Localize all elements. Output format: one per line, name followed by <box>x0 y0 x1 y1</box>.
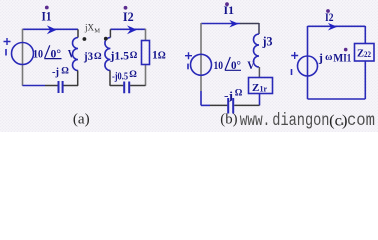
source value label 10/0 V (a) <box>33 45 75 60</box>
wire right (c) <box>364 26 366 99</box>
svg-text:j1.5: j1.5 <box>109 51 129 63</box>
wire left (b) <box>200 23 202 91</box>
current label I1 (a) <box>42 6 52 24</box>
svg-text:-j: -j <box>224 90 233 102</box>
svg-text:M: M <box>333 51 343 65</box>
wire right (a) secondary <box>145 29 147 86</box>
capacitor -j ohm (a) <box>59 81 63 93</box>
capacitor -j ohm (b) <box>228 98 233 114</box>
coupling dot L1 <box>83 37 87 41</box>
current arrow I2 (c) <box>328 23 337 31</box>
inductor value label j1.5 ohm (a) <box>109 51 137 63</box>
svg-text:I2: I2 <box>123 9 134 24</box>
source label jwMI1 (c) <box>318 48 352 65</box>
source value label 10/0 V (b) <box>214 57 255 72</box>
wire left (c) <box>307 26 309 99</box>
svg-text:(a): (a) <box>73 111 90 127</box>
svg-text:Ω: Ω <box>130 51 138 61</box>
wire bottom (a) primary <box>23 85 46 87</box>
inductor L1 j3 (a) <box>77 29 79 37</box>
svg-text:Ω: Ω <box>94 52 102 62</box>
inductor value label j3 ohm (a) <box>83 51 102 63</box>
svg-text:0°: 0° <box>51 47 62 61</box>
svg-text:I2: I2 <box>325 10 334 24</box>
wire bottom (b) <box>210 104 260 106</box>
inductor j3 (b) <box>258 23 260 34</box>
resistor value label 1 ohm (a) <box>152 50 166 62</box>
svg-text:Z: Z <box>252 82 259 94</box>
capacitor -j0.5 ohm (a) <box>124 82 129 94</box>
svg-text:1r: 1r <box>260 85 268 94</box>
current arrow I2 (a) <box>127 25 137 34</box>
svg-text:j3: j3 <box>262 35 273 49</box>
wire bottom (a) secondary <box>110 85 146 87</box>
current label I2 (c) <box>325 9 334 24</box>
wire bottom (c) <box>308 98 366 100</box>
capacitor value label -j ohm (b) <box>224 89 243 103</box>
polarity + (b) <box>185 52 192 59</box>
impedance box Z1r (b) <box>249 78 273 94</box>
svg-text:j: j <box>318 51 323 65</box>
svg-text:Ω: Ω <box>158 51 166 62</box>
current label I2 (a) <box>123 6 134 24</box>
current label I1 (b) <box>224 2 235 17</box>
svg-text:I1: I1 <box>42 9 52 24</box>
svg-text:0°: 0° <box>231 58 241 72</box>
polarity - (a) <box>5 49 7 56</box>
svg-text:ω: ω <box>325 52 332 63</box>
svg-text:-j: -j <box>52 67 59 78</box>
current arrow I1 (a) <box>47 25 57 34</box>
wire left (a) primary <box>22 29 24 86</box>
inductor L2 j1.5 (a) <box>109 29 111 37</box>
svg-text:Z: Z <box>357 48 364 60</box>
impedance box Z22 (c) <box>355 44 375 62</box>
polarity + (c) <box>291 52 298 59</box>
polarity - (c) <box>291 69 293 75</box>
svg-text:Ω: Ω <box>61 67 69 77</box>
capacitor value label -j ohm (a) <box>52 67 69 79</box>
svg-text:Ω: Ω <box>235 89 243 99</box>
capacitor value label -j0.5 ohm (a) <box>112 70 137 83</box>
resistor 1 ohm box (a) <box>142 41 150 65</box>
svg-text:M: M <box>94 27 100 34</box>
svg-text:(b): (b) <box>220 112 237 128</box>
wire top (b) <box>201 23 240 25</box>
svg-text:j3: j3 <box>83 51 93 63</box>
mutual coupling label jXM <box>84 22 100 34</box>
svg-text:I1: I1 <box>224 3 235 17</box>
svg-text:Ω: Ω <box>129 70 137 80</box>
wire top (c) <box>308 25 366 27</box>
svg-text:10: 10 <box>214 58 224 72</box>
svg-text:22: 22 <box>364 50 371 59</box>
svg-text:www.diangon.com: www.diangon.com <box>240 110 375 130</box>
svg-text:10: 10 <box>33 47 43 61</box>
svg-text:jX: jX <box>84 22 95 32</box>
wire top (a) secondary <box>110 28 145 30</box>
current arrow I1 (b) <box>229 20 238 28</box>
voltage source Us (b) <box>191 54 212 75</box>
svg-text:-j0.5: -j0.5 <box>112 72 128 83</box>
svg-text:I1: I1 <box>343 53 351 65</box>
polarity - (b) <box>187 64 189 70</box>
polarity + (a) <box>4 38 11 45</box>
coupling dot L2 <box>104 37 108 41</box>
wire top (a) primary <box>23 28 79 30</box>
controlled source jwMI1 (c) <box>298 56 318 76</box>
voltage source Us (a) <box>12 43 34 65</box>
wire below Z1r (b) <box>259 94 261 106</box>
